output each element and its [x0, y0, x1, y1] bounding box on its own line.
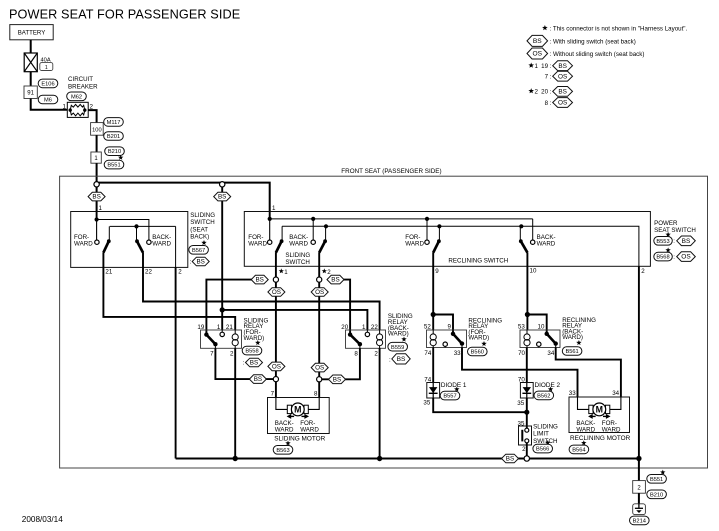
svg-text:2: 2: [641, 268, 645, 275]
fuse label 40A: [40, 57, 53, 71]
svg-text:2: 2: [535, 89, 539, 96]
OS hexagon motor8: [311, 363, 328, 372]
connector B551 bottom with star: [647, 470, 667, 484]
wire rest bus to pin 2: [175, 226, 177, 267]
svg-text:20: 20: [341, 324, 348, 331]
svg-text:WARD): WARD): [468, 335, 489, 342]
svg-text:WARD: WARD: [405, 240, 424, 247]
node: [636, 456, 641, 461]
connector B564 with star: [569, 440, 589, 454]
wire relay coil ground back: [379, 348, 381, 458]
svg-text:WARD: WARD: [300, 427, 319, 434]
svg-text:WARD: WARD: [74, 240, 93, 247]
arrow backward: [287, 414, 295, 419]
svg-text:FRONT SEAT (PASSENGER SIDE): FRONT SEAT (PASSENGER SIDE): [341, 168, 441, 175]
svg-text:2008/03/14: 2008/03/14: [22, 515, 63, 524]
wire relay coil ground fwd: [234, 348, 236, 458]
sliding relay forward box: [201, 330, 242, 348]
svg-text:RECLINING SWITCH: RECLINING SWITCH: [448, 258, 508, 265]
svg-text:21: 21: [105, 269, 112, 276]
wire relay feed bus: [222, 310, 367, 330]
svg-text:BS: BS: [682, 238, 691, 245]
svg-text:8 :: 8 :: [545, 100, 552, 107]
node: [324, 224, 328, 228]
svg-text:WARD: WARD: [537, 240, 556, 247]
svg-text:BS: BS: [196, 259, 204, 266]
arrow forward: [603, 414, 611, 419]
relay contact blade: [545, 332, 558, 348]
wire pin 34 to motor: [556, 348, 621, 398]
node: [95, 217, 99, 221]
wire pin 10 to relay: [527, 252, 546, 333]
wire: [96, 135, 98, 152]
wire: [221, 187, 223, 310]
pin star2 label: [322, 268, 332, 275]
svg-text:DIODE 2: DIODE 2: [535, 382, 561, 389]
BS hexagon for B558: [243, 358, 263, 367]
svg-text:2: 2: [374, 351, 378, 358]
svg-text:BS: BS: [331, 277, 339, 284]
relay coil pin 52-74: [430, 330, 436, 348]
svg-text:CIRCUIT: CIRCUIT: [68, 76, 93, 83]
forward label: [602, 420, 621, 434]
svg-text:OS: OS: [272, 364, 281, 371]
relay contact blade: [451, 332, 464, 348]
svg-text:BACK): BACK): [190, 234, 209, 241]
sliding relay forward label: [244, 317, 269, 341]
svg-text:BS: BS: [254, 376, 262, 383]
legend: BS = with sliding switch: [527, 35, 636, 46]
BS hexagon for B567: [190, 257, 210, 266]
svg-text:WARD: WARD: [152, 240, 171, 247]
svg-text:: This connector is not shown: : This connector is not shown in "Harnes…: [550, 26, 688, 33]
connector B210 bottom: [647, 490, 667, 499]
connector box 91: [24, 86, 37, 99]
power seat switch box: [244, 212, 650, 267]
svg-text:B557: B557: [443, 394, 456, 400]
reclining relay forward box: [427, 330, 467, 348]
node: [377, 456, 382, 461]
sliding motor M: [287, 403, 308, 416]
svg-text:2: 2: [178, 269, 182, 276]
BS hexagon star1: [251, 275, 268, 284]
connector B567 with star: [189, 240, 209, 254]
node junction motor 8 feed: [317, 377, 322, 382]
svg-text:9: 9: [447, 324, 451, 331]
connector B563 with star: [273, 441, 293, 455]
OS hexagon star1: [268, 288, 285, 297]
connector box 100: [91, 123, 104, 136]
svg-text:22: 22: [371, 324, 378, 331]
svg-text:BS: BS: [250, 360, 258, 367]
BS hexagon on ground bus: [502, 454, 519, 463]
relay fixed contact: [443, 342, 447, 348]
front seat (passenger side) box: [60, 176, 708, 468]
switch pole sliding forward: [268, 226, 284, 252]
wire relay 74 to diode 1: [432, 348, 434, 383]
switch pole reclining backward: [519, 226, 535, 252]
connector M117: [104, 118, 124, 127]
svg-text:OS: OS: [558, 73, 567, 80]
diode 2: [520, 383, 533, 399]
svg-text:1: 1: [272, 205, 276, 212]
reclining motor box: [569, 397, 630, 433]
svg-text:B551: B551: [650, 477, 663, 483]
svg-text:WARD: WARD: [248, 240, 267, 247]
sliding limit switch label: [533, 423, 558, 444]
svg-text:2: 2: [327, 269, 331, 276]
circuit breaker M62: [67, 102, 88, 117]
wire pin 2 to ground bus: [175, 267, 177, 458]
svg-text:B561: B561: [565, 349, 578, 355]
connector B553 with star and BS: [654, 232, 696, 246]
svg-text:BS: BS: [255, 277, 263, 284]
svg-text:POWER SEAT FOR PASSENGER SIDE: POWER SEAT FOR PASSENGER SIDE: [9, 7, 240, 21]
relay contact blade: [204, 332, 217, 348]
node: [525, 312, 530, 317]
connector B562 with star: [534, 387, 554, 400]
arrow backward: [588, 414, 596, 419]
connector B561 with star: [562, 340, 582, 355]
node: [220, 307, 225, 312]
relay fixed contact pin 1: [220, 330, 224, 337]
svg-text:B564: B564: [572, 447, 585, 453]
svg-text:7 :: 7 :: [545, 74, 552, 81]
BS hexagon motor8: [329, 375, 346, 384]
wire ground bus: [176, 457, 639, 459]
wire motor leads: [578, 397, 621, 409]
relay coil pin 21-2: [232, 330, 238, 348]
node: [311, 217, 315, 221]
wire relay pin7 BS path: [215, 348, 273, 379]
svg-text:1: 1: [535, 63, 539, 70]
wire rest bus power seat switch: [282, 226, 639, 266]
BS hexagon on pin1 drop: [88, 192, 105, 201]
svg-text:100: 100: [92, 127, 102, 133]
OS hexagon star2: [311, 288, 328, 297]
node junction motor 7 feed: [273, 377, 278, 382]
svg-text:OS: OS: [681, 254, 691, 261]
svg-text:8: 8: [354, 351, 358, 358]
switch pole reclining forward: [425, 226, 441, 252]
relay coil pin 53-70: [524, 330, 530, 348]
svg-text:34: 34: [547, 350, 554, 357]
svg-text:21: 21: [226, 324, 233, 331]
switch pole backward (seat back): [135, 226, 151, 252]
svg-text:1: 1: [99, 205, 103, 212]
svg-text:B201: B201: [107, 134, 120, 140]
legend: star2 pin 20 BS: [528, 87, 572, 97]
BS hexagon star2: [327, 275, 344, 284]
wire diode 2 to limit switch: [526, 398, 528, 428]
svg-text:: Without sliding switch (seat: : Without sliding switch (seat back): [550, 51, 645, 58]
backward label: [152, 234, 171, 247]
connector box 2: [633, 481, 646, 494]
svg-text:B560: B560: [471, 350, 484, 356]
BS hexagon on relay feed drop: [214, 192, 231, 201]
svg-text:M117: M117: [107, 120, 121, 126]
svg-text:9: 9: [435, 268, 439, 275]
svg-text:10: 10: [538, 324, 545, 331]
svg-text:OS: OS: [315, 365, 324, 372]
forward label sliding: [248, 234, 267, 247]
svg-text:B553: B553: [656, 239, 669, 245]
svg-text:8: 8: [314, 390, 318, 397]
node junction at relay feed drop: [220, 182, 225, 187]
relay fixed contact: [537, 342, 541, 348]
svg-text:52: 52: [424, 324, 431, 331]
svg-text:20 :: 20 :: [541, 89, 552, 96]
connector B210: [105, 147, 125, 156]
wire pin 9 to relay: [433, 252, 453, 333]
connector M6: [38, 95, 58, 104]
connector B557 with star: [440, 387, 460, 400]
wire: [30, 40, 32, 53]
svg-text::: :: [190, 259, 192, 266]
svg-text:BS: BS: [558, 89, 567, 96]
svg-text:E106: E106: [41, 82, 54, 88]
svg-text:35: 35: [517, 400, 524, 407]
sliding relay backward box: [346, 330, 386, 348]
reclining motor M: [589, 403, 610, 416]
svg-text:19 :: 19 :: [541, 63, 552, 70]
wire pin 33 to motor: [462, 348, 578, 398]
svg-text:70: 70: [518, 350, 525, 357]
relay fixed contact pin 1: [365, 330, 369, 337]
svg-text:WARD: WARD: [289, 240, 308, 247]
svg-text:B567: B567: [192, 248, 205, 254]
svg-text:7: 7: [271, 390, 275, 397]
svg-text:M: M: [294, 405, 301, 415]
svg-text:B566: B566: [536, 447, 549, 453]
svg-text:BATTERY: BATTERY: [18, 30, 46, 37]
node: [233, 456, 238, 461]
svg-text:BS: BS: [558, 63, 567, 70]
svg-text:WARD: WARD: [576, 427, 595, 434]
svg-text:SEAT SWITCH: SEAT SWITCH: [654, 227, 696, 234]
wire pin 2 reclining to ground bus: [638, 266, 640, 458]
pin star1 label: [279, 268, 289, 275]
svg-text:1: 1: [284, 269, 288, 276]
wire relay 70 to diode 2: [526, 348, 528, 383]
svg-text:53: 53: [518, 324, 525, 331]
reclining relay forward label: [468, 317, 502, 341]
connector box 1: [91, 152, 101, 163]
wire BS path star2: [327, 280, 350, 335]
switch pole forward (seat back): [95, 226, 111, 252]
svg-text:22: 22: [145, 269, 152, 276]
legend: OS = without sliding switch: [527, 48, 644, 59]
relay coil pin 22-2: [377, 330, 383, 348]
node: [134, 224, 138, 228]
svg-text:7: 7: [210, 351, 214, 358]
node: [268, 217, 272, 221]
svg-text:B214: B214: [633, 518, 646, 524]
svg-text:B558: B558: [245, 349, 258, 355]
svg-text:RECLINING MOTOR: RECLINING MOTOR: [570, 435, 631, 442]
svg-text:19: 19: [197, 324, 204, 331]
svg-text::: :: [243, 360, 245, 367]
arrow forward: [302, 414, 310, 419]
diode 1: [427, 383, 440, 399]
connector B560 with star: [468, 341, 488, 356]
wire pin1 feed bus: [270, 212, 533, 241]
wire pin 22 to relay coil: [143, 252, 380, 330]
svg-text:OS: OS: [533, 51, 543, 58]
backward label reclining: [537, 234, 556, 247]
wire pin1 internal feed: [97, 212, 149, 241]
svg-text:B210: B210: [108, 149, 121, 155]
svg-text:BS: BS: [397, 356, 406, 363]
connector E106: [38, 79, 58, 88]
wire limit switch to bus: [526, 443, 528, 457]
forward label: [300, 420, 319, 434]
svg-text:SWITCH: SWITCH: [533, 438, 557, 445]
wire pin 21 to relay coil: [103, 252, 235, 330]
svg-text:SWITCH: SWITCH: [285, 259, 309, 266]
circuit breaker label: [68, 76, 98, 90]
svg-text:OS: OS: [272, 289, 281, 296]
svg-text:34: 34: [612, 390, 619, 397]
svg-text:OS: OS: [315, 289, 324, 296]
sliding switch seat back label: [190, 212, 215, 241]
svg-text:BS: BS: [533, 38, 542, 45]
node: [519, 224, 523, 228]
svg-text:B551: B551: [107, 163, 120, 169]
svg-text:SWITCH: SWITCH: [190, 219, 214, 226]
wire motor leads: [276, 398, 319, 410]
backward label: [576, 420, 595, 434]
forward label: [74, 234, 93, 247]
svg-text::: :: [389, 356, 391, 363]
wire star2 OS path to motor: [318, 252, 320, 397]
svg-text:10: 10: [530, 268, 537, 275]
node junction star2: [317, 277, 322, 282]
svg-text:POWER: POWER: [654, 220, 678, 227]
sliding switch (seat back) box: [71, 212, 188, 268]
wire: [31, 99, 68, 110]
connector M62: [67, 92, 87, 101]
svg-text:74: 74: [424, 350, 431, 357]
fuse 40A: [24, 53, 37, 72]
sliding motor box: [268, 398, 330, 434]
svg-text:SLIDING: SLIDING: [533, 423, 558, 430]
OS hexagon motor7: [268, 362, 285, 371]
svg-text:B562: B562: [537, 393, 550, 399]
wire: [88, 110, 96, 123]
wire: [638, 493, 640, 504]
svg-text:1: 1: [362, 324, 366, 331]
svg-text:35: 35: [423, 400, 430, 407]
svg-text:B563: B563: [276, 448, 289, 454]
svg-text:33: 33: [454, 350, 461, 357]
reclining relay backward label: [562, 317, 596, 341]
connector B551 with star: [104, 155, 124, 169]
svg-text:BS: BS: [333, 376, 341, 383]
svg-text:B210: B210: [650, 492, 663, 498]
legend: star note: [542, 25, 687, 33]
svg-text:WARD): WARD): [388, 331, 409, 338]
relay contact blade: [348, 332, 362, 348]
svg-text:BS: BS: [218, 194, 226, 201]
svg-text:BS: BS: [92, 194, 100, 201]
svg-text:BREAKER: BREAKER: [68, 83, 98, 90]
wire top power bus: [96, 183, 270, 212]
wire diode 1 to junction: [433, 398, 527, 412]
svg-text:M62: M62: [71, 94, 82, 100]
svg-text:2: 2: [230, 351, 234, 358]
switch pole sliding backward: [311, 226, 327, 252]
node: [524, 410, 529, 415]
connector B568 with star and OS: [654, 247, 696, 261]
svg-text:WARD): WARD): [562, 334, 583, 341]
node: [425, 217, 429, 221]
forward label reclining: [405, 234, 424, 247]
wire to body ground: [638, 459, 640, 481]
svg-text:M: M: [596, 405, 603, 415]
reclining relay backward box: [520, 330, 560, 348]
wire BS path star1: [206, 280, 268, 335]
connector B558 with star: [242, 340, 262, 355]
svg-text:DIODE 1: DIODE 1: [441, 382, 467, 389]
backward label sliding: [289, 234, 308, 247]
svg-text:SLIDING MOTOR: SLIDING MOTOR: [274, 436, 325, 443]
node junction at B551 drop: [94, 182, 99, 187]
node junction star1: [273, 277, 278, 282]
connector B201: [104, 132, 124, 141]
node junction limit switch to bus: [524, 456, 529, 461]
svg-text:SLIDING: SLIDING: [190, 212, 215, 219]
power seat switch label: [654, 220, 696, 234]
svg-text:WARD: WARD: [602, 427, 621, 434]
svg-text:BS: BS: [506, 456, 514, 463]
svg-text:1: 1: [217, 324, 221, 331]
wire rest bus seat back: [110, 225, 176, 227]
svg-text:OS: OS: [558, 100, 567, 107]
backward label: [275, 420, 294, 434]
svg-text:33: 33: [569, 390, 576, 397]
wire star1 OS path to motor: [275, 252, 277, 397]
sliding relay backward label: [388, 313, 413, 337]
legend: star1 pin 19 BS: [528, 61, 572, 71]
legend: pin 8 OS: [545, 98, 573, 108]
svg-text:: With sliding switch (seat ba: : With sliding switch (seat back): [550, 38, 636, 45]
BS hexagon for B559: [389, 354, 410, 364]
sliding switch label: [285, 252, 310, 266]
wire: [221, 310, 223, 330]
node: [437, 224, 441, 228]
svg-text:B559: B559: [391, 345, 404, 351]
svg-text:2: 2: [522, 446, 526, 453]
connector B566 with star: [533, 440, 553, 453]
sliding limit switch B566: [519, 426, 532, 445]
wire: [96, 163, 98, 211]
connector B214: [630, 516, 650, 525]
svg-text:LIMIT: LIMIT: [533, 431, 549, 438]
svg-text:WARD: WARD: [275, 427, 294, 434]
wire: [30, 72, 32, 86]
legend: pin 7 OS: [545, 71, 573, 81]
svg-text:1: 1: [63, 104, 67, 111]
node: [431, 312, 436, 317]
svg-text:WARD): WARD): [244, 335, 265, 342]
body ground symbol: [633, 504, 646, 515]
svg-text:1: 1: [45, 65, 48, 71]
connector B559 with star: [388, 337, 408, 352]
svg-text:M6: M6: [44, 98, 52, 104]
wire relay pin8 BS path: [322, 348, 360, 379]
BS hexagon motor7: [249, 375, 266, 384]
